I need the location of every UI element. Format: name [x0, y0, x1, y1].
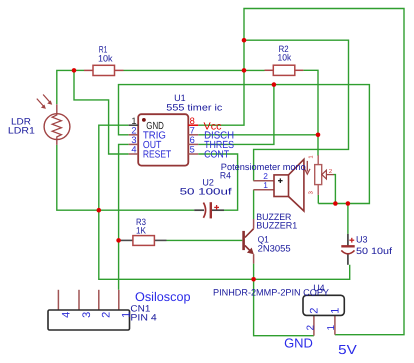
svg-text:2: 2 — [329, 168, 332, 175]
svg-text:1K: 1K — [136, 225, 147, 235]
buzzer pin numbers — [263, 171, 268, 190]
svg-text:2: 2 — [101, 312, 113, 318]
svg-text:2: 2 — [131, 126, 136, 136]
wire RESET net — [74, 70, 129, 154]
svg-text:50 100uf: 50 100uf — [180, 186, 233, 196]
wire net 5V top/right rail — [198, 9, 404, 335]
node wiper rail junction — [333, 201, 338, 206]
svg-text:3: 3 — [81, 312, 93, 318]
CN1 pin numbers rotated — [60, 308, 341, 331]
svg-text:1: 1 — [263, 180, 268, 190]
pin names U1 — [143, 121, 234, 161]
resistor R2 — [265, 65, 304, 75]
wire DISCH net — [198, 134, 318, 136]
node TRIG/THRES junction — [272, 82, 277, 87]
svg-text:2: 2 — [305, 325, 316, 331]
resistor R1 — [84, 65, 124, 75]
svg-text:1: 1 — [330, 308, 342, 314]
big labels — [135, 290, 357, 357]
svg-text:555 timer ic: 555 timer ic — [166, 103, 222, 113]
wire Q1 emitter to GND rail — [253, 264, 255, 280]
svg-text:10k: 10k — [98, 53, 113, 63]
node U3 rail junction — [346, 201, 351, 206]
svg-text:6: 6 — [190, 135, 195, 145]
svg-text:7: 7 — [190, 126, 195, 136]
wire pot wiper to rail — [334, 175, 336, 204]
svg-text:1: 1 — [326, 325, 337, 331]
node OUT/R3 junction — [116, 238, 121, 243]
svg-text:3: 3 — [131, 135, 136, 145]
svg-text:1: 1 — [131, 116, 136, 126]
potentiometer R4 — [305, 155, 334, 195]
pin 6 THRES stub — [188, 143, 198, 145]
pin 8 Vcc stub — [188, 124, 198, 126]
svg-text:PIN 4: PIN 4 — [130, 312, 156, 322]
svg-text:2N3055: 2N3055 — [258, 244, 291, 254]
connector U4 — [303, 295, 344, 335]
svg-text:1: 1 — [308, 155, 314, 158]
wire R2 right down to pot top — [303, 70, 318, 155]
wire TRIG net loop — [119, 85, 370, 204]
svg-text:2: 2 — [309, 308, 321, 314]
wire pot bottom stub to rail — [317, 195, 319, 204]
svg-text:Osiloscop: Osiloscop — [135, 290, 191, 304]
svg-text:U1: U1 — [174, 93, 186, 103]
svg-text:5V: 5V — [338, 342, 357, 357]
wire LDR bottom rail to U2 — [57, 145, 194, 210]
node GND/LDR rail junction — [97, 208, 102, 213]
pin 4 RESET stub — [129, 153, 139, 155]
pin 7 DISCH stub — [188, 134, 198, 136]
op-amp U1 555 timer body — [138, 114, 188, 165]
connector CN1 — [48, 290, 130, 330]
wire buzzer pin1 to Q1 collector — [253, 190, 255, 219]
resistor R3 — [119, 236, 167, 246]
svg-text:CONT: CONT — [204, 150, 230, 161]
photoresistor LDR1 — [37, 95, 70, 145]
svg-text:4: 4 — [60, 312, 72, 318]
svg-text:RESET: RESET — [143, 150, 172, 161]
svg-text:LDR1: LDR1 — [8, 125, 35, 135]
wire CONT net to U2 plus — [198, 154, 237, 210]
wire R1 right to R2 left — [124, 69, 265, 71]
node DISCH junction — [316, 133, 321, 138]
wire GND net to U4 pin2 — [254, 279, 314, 335]
pin 5 CONT stub — [188, 153, 198, 155]
svg-text:5: 5 — [190, 145, 195, 155]
node R1/R2 5V junction — [242, 68, 247, 73]
buzzer BUZZER1 — [253, 159, 304, 211]
svg-text:R4: R4 — [220, 170, 231, 180]
pin 3 OUT stub — [129, 143, 139, 145]
wire OUT net down to CN1 pin1 — [119, 144, 129, 289]
svg-text:1: 1 — [121, 312, 133, 318]
svg-text:PINHDR-2MMP-2PIN COPY: PINHDR-2MMP-2PIN COPY — [213, 288, 329, 298]
capacitor U3 — [341, 234, 354, 265]
svg-text:10k: 10k — [278, 53, 292, 63]
node R1/LDR junction — [72, 68, 77, 73]
node 5V branch junction — [242, 38, 247, 43]
wire GND net left — [99, 125, 350, 279]
wire THRES net — [198, 85, 274, 145]
pin numbers U1 — [131, 116, 194, 155]
wire node A to LDR top — [57, 70, 74, 104]
svg-text:8: 8 — [190, 116, 195, 126]
wire R1 left — [74, 69, 84, 71]
svg-text:GND: GND — [284, 336, 313, 351]
node emitter/GND junction — [251, 277, 256, 282]
wire U3 top — [347, 204, 349, 234]
svg-text:3: 3 — [307, 191, 314, 194]
capacitor U2 — [194, 202, 224, 218]
small red pin numbers — [307, 155, 332, 194]
svg-text:U3: U3 — [356, 235, 368, 245]
svg-text:BUZZER1: BUZZER1 — [256, 221, 297, 231]
svg-text:4: 4 — [131, 145, 136, 155]
pin 1 GND stub — [129, 124, 139, 126]
transistor Q1 — [242, 219, 254, 264]
wire net 5V branch to buzzer pin2 — [244, 40, 349, 181]
pin 2 TRIG stub — [129, 134, 139, 136]
wire R3 right to Q1 base — [167, 239, 243, 241]
svg-text:50 10uf: 50 10uf — [356, 246, 393, 256]
